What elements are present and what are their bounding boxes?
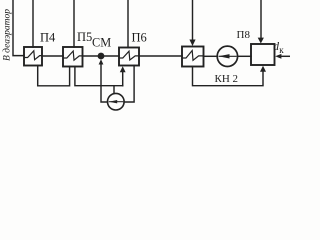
- svg-text:П4: П4: [40, 31, 56, 45]
- sensor circle (feedback transmitter): [108, 93, 125, 110]
- svg-text:к: к: [279, 45, 284, 55]
- wire: P6 bottom right down to sensor circle right: [124, 66, 134, 103]
- arrow dk into P8 right side: [275, 54, 281, 59]
- arrow into P8 top: [258, 38, 264, 44]
- regulator П8 (empty box): [251, 44, 275, 65]
- wire: branch from bus down into sensor circle top: [113, 86, 115, 94]
- wire: top drop into P5: [73, 0, 75, 47]
- wire: top drop into P4: [32, 0, 34, 47]
- wire: P4 bottom to P5 bottom U-link: [38, 66, 70, 86]
- arrow into SM node from below: [99, 59, 104, 64]
- wire: P4 to P5: [42, 55, 63, 57]
- wire: bus rising into P6 bottom (arrowed): [122, 72, 124, 86]
- svg-text:КН 2: КН 2: [215, 73, 239, 85]
- wire: top drop into box4: [192, 0, 194, 40]
- wire: valve KN2 to P8: [238, 55, 251, 57]
- node SM junction dot: [98, 53, 105, 60]
- wire: box4 bottom to P8 bottom feedback: [193, 67, 264, 86]
- arrow into P8 bottom from feedback: [260, 66, 266, 72]
- arrow into box4 top: [189, 40, 195, 47]
- svg-text:П8: П8: [237, 29, 251, 41]
- wire: P5 to P6 through node SM: [83, 55, 120, 57]
- arrow into P6 bottom from bus: [120, 66, 126, 72]
- converter box4 (unlabelled): [182, 47, 204, 67]
- converter П5: [63, 47, 83, 67]
- svg-text:П6: П6: [132, 31, 147, 45]
- wire: top drop into P6: [127, 0, 129, 48]
- wire: left output line to deaerator (vertical from top, corner to P4 left): [13, 0, 24, 56]
- wire: P5 bottom down to bottom bus: [75, 67, 123, 86]
- valve circle KN2: [217, 46, 237, 66]
- converter П4: [24, 47, 42, 66]
- wire: box4 to valve KN2: [204, 55, 218, 57]
- svg-text:П5: П5: [77, 30, 92, 44]
- wire: feedback from SM node down to sensor circle left: [101, 64, 108, 103]
- inner arrow of sensor: [109, 101, 124, 103]
- inner arrow of KN2: [219, 55, 237, 57]
- wire: P6 to box4: [139, 55, 182, 57]
- converter П6: [119, 48, 139, 66]
- svg-text:СМ: СМ: [92, 36, 111, 50]
- wire: dk input from right edge into P8: [281, 55, 290, 57]
- svg-text:В деаэратор: В деаэратор: [2, 9, 13, 61]
- wire: top drop into P8: [260, 0, 262, 38]
